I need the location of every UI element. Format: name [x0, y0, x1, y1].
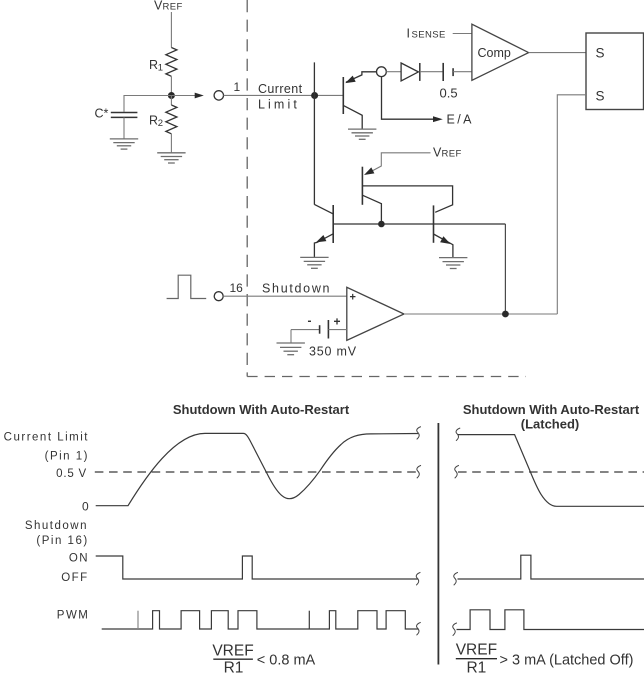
svg-text:Limit: Limit — [258, 98, 300, 112]
wire comp output to latch — [529, 52, 586, 54]
wire node to arrow — [171, 95, 195, 97]
transistor Q3 (PNP, VREF source) — [362, 167, 452, 221]
dashed 0.5V threshold (right) — [458, 471, 644, 473]
capacitor C* — [111, 113, 138, 139]
wire node to diode — [386, 71, 401, 73]
formula right: VREF/R1 > 3 mA (Latched Off) — [456, 642, 634, 677]
latch box S/S — [586, 33, 644, 110]
svg-text:OFF: OFF — [61, 572, 89, 584]
svg-text:I: I — [407, 27, 410, 41]
svg-text:R: R — [149, 58, 158, 72]
break squiggle curve left — [417, 427, 421, 440]
break squiggle dashed left — [417, 465, 421, 478]
label R2 — [149, 114, 163, 130]
svg-text:Shutdown With Auto-Restart: Shutdown With Auto-Restart — [463, 402, 640, 417]
wire mirror base rail — [333, 223, 505, 225]
shutdown waveform (left) — [96, 556, 418, 579]
junction dot (op-amp output node) — [502, 311, 509, 318]
separator line between diagrams — [437, 423, 439, 665]
ground (under Q4) — [300, 257, 328, 268]
formula left: VREF/R1 < 0.8 mA — [212, 643, 315, 677]
svg-text:0.5: 0.5 — [440, 86, 458, 101]
op-amp U1 (shutdown comparator) — [347, 287, 404, 340]
wire pin1 to Q1 base — [224, 94, 343, 96]
wire current limit node down to Q4 collector — [313, 62, 315, 204]
svg-text:-: - — [308, 314, 312, 328]
title right: Shutdown With Auto-Restart (Latched) — [463, 402, 640, 432]
wire op-amp output — [404, 313, 557, 315]
ground (battery) — [277, 343, 305, 355]
net VREF (mirror bias label) — [433, 146, 462, 160]
svg-text:Current: Current — [258, 82, 303, 96]
wire pin16 to op-amp — [223, 295, 347, 297]
svg-text:< 0.8 mA: < 0.8 mA — [257, 652, 316, 668]
svg-text:+: + — [350, 292, 356, 304]
svg-text:PWM: PWM — [57, 610, 90, 622]
svg-text:Shutdown: Shutdown — [25, 520, 88, 532]
diode D1 — [401, 63, 420, 81]
current limit curve (left) — [96, 433, 418, 505]
break squiggle PWM right — [453, 623, 457, 636]
ground (under Q5) — [439, 258, 467, 269]
wire ISENSE to comp — [453, 33, 472, 35]
svg-text:1: 1 — [158, 63, 163, 74]
pin 1 terminal circle — [214, 91, 223, 100]
svg-text:(Pin 16): (Pin 16) — [36, 535, 88, 547]
ground (under R2) — [157, 153, 185, 163]
break squiggle curve right (left end) — [456, 428, 460, 441]
svg-text:C*: C* — [95, 107, 109, 121]
wire mirror rail to shutdown output node — [504, 224, 506, 314]
net ISENSE label — [407, 27, 446, 41]
svg-text:1: 1 — [234, 80, 241, 94]
svg-text:+: + — [334, 315, 341, 329]
wire node down to E/A — [382, 77, 434, 120]
break squiggle dashed right (left end) — [455, 465, 459, 478]
svg-text:S: S — [596, 89, 605, 104]
label Current Limit — [258, 82, 303, 112]
svg-text:ON: ON — [69, 553, 89, 565]
wire R1 to node — [170, 76, 172, 95]
svg-text:(Latched): (Latched) — [521, 417, 580, 432]
arrowhead toward pin 1 — [195, 93, 204, 99]
transistor Q4 (NPN, left of mirror) — [314, 204, 333, 257]
svg-text:R1: R1 — [466, 660, 486, 677]
resistor R1 — [166, 48, 177, 77]
net VREF (top label) — [154, 0, 183, 13]
PWM tick 1 (left) — [137, 611, 139, 629]
0.5V offset battery — [443, 63, 453, 81]
break squiggle PWM left — [417, 622, 421, 635]
node junction dot (R1/R2/C* divider) — [168, 92, 175, 99]
pin 16 terminal circle — [214, 292, 223, 301]
svg-text:0: 0 — [82, 500, 89, 514]
break squiggle shutdown left — [416, 572, 420, 585]
wire VREF to R1 — [170, 12, 172, 48]
svg-text:Comp: Comp — [478, 46, 511, 60]
dashed IC boundary vertical — [246, 0, 248, 377]
resistor R2 — [166, 105, 177, 134]
svg-text:Shutdown: Shutdown — [262, 282, 331, 296]
svg-text:SENSE: SENSE — [412, 30, 446, 41]
node circle (Q1 emitter / diode junction) — [377, 67, 387, 77]
junction dot (current limit node) — [311, 92, 318, 99]
PWM waveform (right) — [457, 610, 644, 630]
ground (under Q1 collector) — [348, 129, 376, 139]
PWM tick 2 (left) — [308, 611, 310, 629]
dashed 0.5V threshold (left) — [95, 471, 418, 473]
arrowhead into Q3 emitter — [364, 167, 374, 175]
current limit curve (right, latched) — [458, 435, 644, 507]
svg-text:(Pin 1): (Pin 1) — [45, 451, 89, 463]
wire VREF to Q3 emitter — [368, 153, 431, 174]
wire node to R2 — [170, 96, 172, 106]
svg-text:E/A: E/A — [447, 113, 474, 127]
shutdown input pulse symbol — [167, 275, 207, 298]
wire battery to ground — [290, 330, 292, 343]
PWM waveform (left) — [102, 611, 418, 629]
junction dot (mirror node) — [378, 221, 385, 228]
dashed IC boundary horizontal — [247, 376, 526, 378]
svg-text:Shutdown With Auto-Restart: Shutdown With Auto-Restart — [173, 402, 350, 417]
svg-text:REF: REF — [442, 149, 462, 160]
transistor Q1 (PNP, current limit clamp) — [343, 72, 376, 129]
arrowhead E/A — [433, 116, 443, 122]
wire latch S input from shutdown comparator — [557, 95, 586, 314]
wire battery to comp input — [453, 71, 472, 73]
transistor Q5 (NPN, right of mirror) — [434, 205, 453, 257]
break squiggle shutdown right — [454, 572, 458, 585]
wire diode to offset battery — [420, 71, 443, 73]
svg-text:0.5 V: 0.5 V — [56, 468, 87, 480]
svg-text:2: 2 — [158, 118, 163, 129]
ground (under C*) — [110, 139, 138, 149]
svg-text:> 3 mA (Latched Off): > 3 mA (Latched Off) — [500, 653, 634, 669]
svg-text:S: S — [596, 46, 605, 61]
wire R2 to ground — [170, 134, 172, 153]
shutdown waveform (right) — [458, 555, 644, 579]
svg-text:Current Limit: Current Limit — [4, 432, 89, 444]
svg-text:R: R — [149, 114, 158, 128]
svg-text:REF: REF — [163, 2, 183, 13]
label R1 — [149, 58, 163, 74]
svg-text:350 mV: 350 mV — [309, 345, 357, 359]
battery 350 mV — [291, 314, 347, 339]
comparator Comp — [472, 24, 529, 80]
wire node to C* — [124, 96, 171, 112]
svg-text:VREF: VREF — [456, 642, 497, 659]
svg-text:16: 16 — [230, 281, 244, 295]
svg-text:VREF: VREF — [212, 643, 253, 660]
svg-text:R1: R1 — [224, 660, 244, 677]
